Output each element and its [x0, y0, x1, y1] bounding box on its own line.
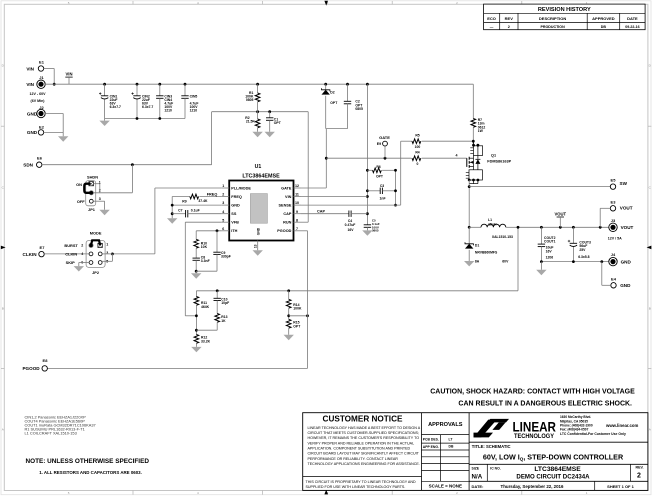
jack J3 VOUT [608, 218, 634, 240]
terminal E4 GND [611, 276, 631, 288]
wire feedback top rail [196, 227, 518, 292]
resistor R1 [245, 84, 260, 112]
svg-text:1: 1 [106, 242, 108, 246]
svg-text:6.3x5.8: 6.3x5.8 [578, 255, 589, 259]
jack J2 GND [27, 105, 45, 118]
svg-text:NOTE: UNLESS OTHERWISE SPECIFI: NOTE: UNLESS OTHERWISE SPECIFIED [26, 458, 150, 465]
wire R6/C3 to SENSE [394, 169, 397, 207]
svg-text:VOUT: VOUT [621, 225, 634, 230]
ground (C5) [362, 230, 372, 235]
svg-text:5: 5 [222, 218, 224, 222]
capacitor CIN5 [181, 84, 198, 118]
svg-text:11: 11 [295, 193, 299, 197]
svg-text:ITH: ITH [231, 229, 237, 233]
svg-text:R6: R6 [376, 165, 380, 169]
size ic rev row [469, 464, 648, 481]
svg-text:2: 2 [508, 25, 510, 29]
svg-text:L1: L1 [488, 218, 492, 222]
ground (input) [58, 136, 68, 141]
svg-text:D1: D1 [475, 243, 479, 247]
capacitor C5 [364, 219, 380, 233]
svg-text:PCB DES.: PCB DES. [423, 438, 439, 442]
wire J2/E2 to ground [44, 114, 64, 137]
svg-text:REVISION HISTORY: REVISION HISTORY [538, 7, 591, 13]
svg-text:B: B [2, 307, 4, 311]
svg-text:E3: E3 [611, 199, 617, 204]
svg-text:DATE:: DATE: [472, 484, 484, 489]
svg-text:21.5K: 21.5K [246, 120, 256, 124]
svg-text:J1: J1 [39, 75, 44, 80]
svg-text:RUN: RUN [283, 221, 291, 225]
svg-text:4: 4 [456, 153, 458, 157]
capacitor COUT2 COUT1 [538, 227, 556, 261]
svg-text:FREQ: FREQ [231, 195, 242, 199]
svg-text:CAP: CAP [283, 212, 291, 216]
svg-text:2: 2 [81, 244, 83, 248]
terminal E1 VIN [26, 60, 44, 72]
svg-text:CLKIN: CLKIN [23, 252, 38, 257]
svg-text:13: 13 [254, 244, 258, 248]
svg-text:DATE: DATE [627, 16, 638, 21]
svg-text:N/A: N/A [472, 473, 483, 480]
op-amp U1 LTC3864EMSE [222, 164, 301, 241]
svg-text:464K: 464K [201, 305, 210, 309]
wire GATE net [301, 129, 411, 188]
node CAP label [317, 209, 325, 213]
svg-text:PGOOD: PGOOD [277, 229, 291, 233]
svg-text:16V: 16V [347, 228, 354, 232]
svg-text:VIN: VIN [66, 72, 73, 77]
svg-text:LTC3864EMSE: LTC3864EMSE [242, 173, 280, 179]
svg-text:GATE: GATE [281, 186, 292, 190]
svg-text:REV: REV [505, 16, 514, 21]
ground (JP2) [74, 266, 84, 271]
svg-text:APP ENG.: APP ENG. [423, 445, 439, 449]
terminal E5 SW [610, 178, 627, 190]
svg-text:1W: 1W [478, 129, 484, 133]
title block frame [303, 413, 648, 491]
svg-text:PRODUCTION: PRODUCTION [541, 25, 566, 29]
svg-text:LTC Confidential-For Customer: LTC Confidential-For Customer Use Only [560, 432, 626, 436]
svg-text:VOUT: VOUT [620, 206, 633, 211]
capacitor CIN3 CIN4 [156, 84, 173, 118]
resistor R14 [286, 291, 302, 320]
capacitor C2 [344, 84, 363, 128]
resistor R13 [196, 314, 227, 331]
svg-text:DESCRIPTION: DESCRIPTION [539, 16, 566, 21]
svg-text:TECHNOLOGY APPLICATIONS ENGINE: TECHNOLOGY APPLICATIONS ENGINEERING FOR … [308, 462, 420, 466]
svg-text:JP1: JP1 [88, 207, 96, 212]
svg-text:REV.: REV. [635, 465, 643, 469]
svg-text:CAP: CAP [317, 209, 325, 213]
resistor R2 [245, 112, 260, 132]
wire ITH node [196, 229, 222, 232]
svg-text:DB: DB [449, 445, 454, 449]
svg-text:0: 0 [417, 162, 419, 166]
ground (C7) [167, 218, 177, 223]
svg-text:GATE: GATE [379, 135, 390, 140]
node FREQ label [207, 193, 218, 197]
svg-text:L1 COILCRAFT XAL1510-153: L1 COILCRAFT XAL1510-153 [25, 431, 77, 436]
jack J4 GND [609, 252, 632, 266]
svg-text:1: 1 [222, 184, 224, 188]
svg-text:8A: 8A [475, 260, 480, 264]
date sheet row [469, 481, 648, 490]
svg-text:CIRCUIT THAT MEETS CUSTOMER-SU: CIRCUIT THAT MEETS CUSTOMER-SUPPLIED SPE… [308, 431, 419, 435]
svg-text:SIZE: SIZE [472, 467, 480, 471]
svg-text:9: 9 [296, 210, 298, 214]
svg-text:IC NO.: IC NO. [490, 467, 500, 471]
svg-text:CIN5: CIN5 [190, 94, 198, 98]
svg-text:MODE: MODE [90, 231, 102, 236]
svg-text:TECHNOLOGY: TECHNOLOGY [514, 433, 555, 440]
svg-text:4: 4 [81, 252, 83, 256]
wire PGOOD net [47, 231, 307, 369]
revision history table [484, 4, 645, 30]
svg-text:SHDN: SHDN [87, 174, 98, 179]
svg-text:25V: 25V [579, 248, 586, 252]
capacitor CIN2 [131, 84, 153, 118]
jumper JP1 SHDN [76, 174, 101, 212]
svg-text:OPT: OPT [376, 174, 384, 178]
wire ITH gnd stem [195, 271, 197, 273]
svg-text:OPT: OPT [293, 324, 301, 328]
svg-text:CAN RESULT IN A DANGEROUS ELEC: CAN RESULT IN A DANGEROUS ELECTRIC SHOCK… [458, 400, 632, 407]
svg-text:SW: SW [620, 181, 628, 186]
svg-text:SUPPLIED FOR USE WITH LINEAR T: SUPPLIED FOR USE WITH LINEAR TECHNOLOGY … [306, 485, 406, 489]
wire input cap bottom rail [105, 117, 185, 121]
wire SDN net [42, 110, 308, 166]
diode D1 [465, 227, 509, 263]
svg-text:A: A [649, 428, 651, 432]
svg-text:R5: R5 [415, 133, 419, 137]
resistor R4 [412, 150, 467, 166]
svg-text:10K: 10K [201, 245, 208, 249]
wire RUN net [301, 112, 308, 223]
wire JP1 pin1 to pin2 [94, 184, 100, 193]
ground (C1) [265, 132, 275, 137]
svg-text:100: 100 [415, 145, 421, 149]
svg-text:J4: J4 [611, 252, 616, 257]
svg-text:3.3nF: 3.3nF [201, 259, 210, 263]
resistor R12 [194, 335, 210, 347]
svg-text:E4: E4 [611, 276, 617, 281]
svg-text:COUT1: COUT1 [544, 240, 556, 244]
svg-text:12V / 5A: 12V / 5A [608, 236, 622, 240]
jack J1 VIN [26, 75, 46, 103]
svg-text:E9: E9 [377, 142, 381, 146]
capacitor CIN1 [99, 84, 121, 118]
ground (ITH comp) [191, 273, 201, 278]
svg-text:3: 3 [99, 197, 101, 201]
capacitor C9 [196, 231, 231, 271]
svg-text:12: 12 [295, 184, 299, 188]
svg-text:4: 4 [222, 210, 224, 214]
svg-text:LINEAR TECHNOLOGY HAS MADE A B: LINEAR TECHNOLOGY HAS MADE A BEST EFFORT… [308, 426, 421, 430]
svg-text:09-22-16: 09-22-16 [625, 25, 639, 29]
wire SW net [468, 180, 610, 229]
svg-text:DEMO CIRCUIT DC2434A: DEMO CIRCUIT DC2434A [516, 474, 590, 481]
wire VOUT rail [517, 226, 609, 229]
wire E7 to JP2 pin4 [44, 253, 89, 255]
svg-text:OPT: OPT [330, 101, 338, 105]
svg-text:VIN: VIN [26, 82, 34, 87]
svg-text:6: 6 [222, 227, 224, 231]
svg-text:7: 7 [296, 227, 298, 231]
svg-text:LINEAR: LINEAR [513, 418, 557, 434]
svg-text:SS: SS [231, 212, 237, 216]
svg-text:3: 3 [222, 201, 224, 205]
svg-text:GND: GND [620, 283, 631, 288]
svg-text:GND: GND [231, 204, 240, 208]
svg-text:10pF: 10pF [221, 301, 229, 305]
svg-text:E6: E6 [37, 156, 43, 161]
ground (output caps) [536, 270, 546, 275]
svg-text:VFB: VFB [231, 221, 239, 225]
transistor Q1 FDMS86163P [466, 141, 512, 183]
svg-text:33.2K: 33.2K [201, 339, 211, 343]
svg-text:APPROVALS: APPROVALS [428, 422, 463, 428]
svg-text:1206: 1206 [546, 256, 554, 260]
wire VFB net [185, 222, 221, 316]
svg-text:E1: E1 [39, 60, 45, 65]
svg-text:SDN: SDN [23, 163, 33, 168]
svg-text:SHEET 1 OF 1: SHEET 1 OF 1 [607, 484, 634, 489]
note part numbers [25, 415, 96, 436]
wire VIN rail [45, 83, 473, 86]
caution note [430, 389, 635, 408]
svg-text:E2: E2 [39, 124, 45, 129]
ground (R12) [191, 347, 201, 352]
svg-text:VIN: VIN [285, 195, 292, 199]
capacitor COUT3 [568, 227, 591, 261]
svg-text:THIS CIRCUIT IS PROPRIETARY TO: THIS CIRCUIT IS PROPRIETARY TO LINEAR TE… [306, 480, 416, 484]
svg-text:8: 8 [296, 218, 298, 222]
svg-text:JP2: JP2 [92, 270, 100, 275]
wire E1 to VIN rail [44, 69, 56, 86]
svg-text:(6V Min): (6V Min) [31, 99, 46, 103]
svg-text:1K: 1K [221, 319, 226, 323]
svg-text:ON: ON [76, 182, 82, 187]
customer notice [306, 415, 421, 489]
svg-text:GND: GND [621, 260, 632, 265]
wire D2/C2 to GATE riser [326, 128, 348, 130]
node VOUT label [554, 211, 566, 227]
terminal E3 VOUT [610, 199, 632, 211]
wire VIN feed vertical [366, 84, 369, 225]
svg-text:CIRCUIT BOARD LAYOUT MAY SIGNI: CIRCUIT BOARD LAYOUT MAY SIGNIFICANTLY A… [308, 452, 420, 456]
resistor R6 [367, 165, 395, 178]
jumper JP2 MODE [64, 231, 108, 275]
svg-text:16V: 16V [546, 249, 553, 253]
svg-text:R9: R9 [182, 199, 186, 203]
terminal E9 GATE [377, 135, 390, 158]
svg-text:37.4K: 37.4K [198, 199, 208, 203]
svg-text:FDMS86163P: FDMS86163P [487, 160, 511, 164]
ground (JP1) [99, 210, 109, 215]
svg-text:1. ALL RESISTORS AND CAPACITO: 1. ALL RESISTORS AND CAPACITORS ARE 0603… [39, 470, 142, 475]
svg-text:LTC3864EMSE: LTC3864EMSE [534, 466, 581, 473]
svg-text:CUSTOMER NOTICE: CUSTOMER NOTICE [323, 415, 403, 424]
svg-text:OPT: OPT [274, 121, 282, 125]
svg-text:ECO: ECO [487, 16, 496, 21]
resistor R11 [194, 291, 210, 335]
wire JP1 pin3 to ground [93, 201, 104, 210]
svg-text:SKIP: SKIP [66, 260, 75, 265]
terminal E2 GND [27, 124, 45, 135]
svg-text:APPROVED: APPROVED [592, 16, 615, 21]
ground (U1 pad) [253, 250, 263, 255]
wire R14 node to PGOOD riser [289, 314, 309, 317]
svg-text:FREQ: FREQ [207, 193, 218, 197]
svg-text:E7: E7 [40, 245, 46, 250]
svg-text:2: 2 [637, 473, 641, 480]
svg-text:1210: 1210 [190, 108, 198, 112]
svg-text:—: — [490, 25, 494, 29]
svg-text:PLL/MODE: PLL/MODE [231, 186, 251, 190]
svg-text:PGOOD: PGOOD [22, 366, 40, 371]
svg-text:10: 10 [295, 201, 299, 205]
company address [560, 415, 638, 436]
svg-text:15uH: 15uH [488, 223, 497, 227]
ground (input caps) [99, 121, 109, 126]
svg-text:BURST: BURST [64, 243, 78, 248]
svg-text:12V - 60V: 12V - 60V [30, 92, 47, 96]
svg-text:330pF: 330pF [221, 254, 231, 258]
svg-text:VOUT: VOUT [554, 211, 566, 216]
terminal E7 CLKIN [23, 245, 46, 257]
wire GND/SS riser [171, 197, 222, 219]
svg-text:100K: 100K [293, 307, 302, 311]
svg-text:OFF: OFF [77, 199, 85, 204]
svg-text:Q1: Q1 [491, 153, 496, 157]
ground (R2) [252, 132, 262, 137]
resistor R15 [286, 319, 301, 335]
resistor R10 [194, 231, 208, 258]
svg-text:PERFORMANCE OR RELIABILITY. C: PERFORMANCE OR RELIABILITY. CONTACT LINE… [308, 457, 399, 461]
resistor R7 [471, 84, 485, 145]
wire JP2 pin3-pin5 link [102, 254, 112, 261]
resistor R5 [401, 133, 474, 205]
title row [469, 442, 648, 461]
wire VIN pin line [301, 196, 367, 198]
pin 13 exposed pad ground [254, 241, 258, 251]
svg-text:1nF: 1nF [379, 196, 385, 200]
wire output gnd rail [540, 260, 609, 270]
inductor L1 [469, 218, 518, 239]
capacitor C8 [193, 255, 210, 272]
wire JP2 pin6 to ground [79, 263, 89, 267]
resistor R9 [172, 194, 222, 203]
svg-text:SENSE: SENSE [279, 204, 292, 208]
capacitor C10 [214, 291, 230, 314]
svg-text:HOWEVER, IT REMAINS THE CUSTOM: HOWEVER, IT REMAINS THE CUSTOMER'S RESPO… [308, 436, 420, 440]
svg-text:TITLE: SCHEMATIC: TITLE: SCHEMATIC [472, 444, 511, 449]
svg-text:SCALE = NONE: SCALE = NONE [429, 484, 462, 489]
svg-text:E8: E8 [43, 358, 49, 363]
svg-text:CAUTION, SHOCK HAZARD: CONTACT: CAUTION, SHOCK HAZARD: CONTACT WITH HIGH… [430, 389, 635, 396]
capacitor C7 [172, 208, 222, 217]
svg-text:GND: GND [257, 227, 261, 235]
svg-text:U1: U1 [255, 164, 262, 170]
svg-text:6.3x7.7: 6.3x7.7 [110, 105, 121, 109]
svg-text:B: B [649, 307, 651, 311]
capacitor C4 [301, 211, 367, 233]
svg-text:1210: 1210 [164, 108, 172, 112]
terminal E8 PGOOD [22, 358, 48, 371]
svg-text:J3: J3 [611, 218, 616, 223]
ground (R15) [284, 335, 294, 340]
svg-text:60V: 60V [502, 260, 509, 264]
svg-text:0.47uF: 0.47uF [345, 223, 356, 227]
svg-text:60V, LOW IQ, STEP-DOWN CONTROL: 60V, LOW IQ, STEP-DOWN CONTROLLER [483, 452, 624, 461]
svg-text:XAL1510-153: XAL1510-153 [492, 235, 513, 239]
svg-text:0805: 0805 [246, 98, 254, 102]
svg-text:GND: GND [27, 111, 38, 116]
capacitor C1 [266, 112, 282, 132]
approvals box [422, 422, 470, 489]
wire PLL/MODE net [111, 188, 222, 255]
wire E4 to gnd rail [602, 262, 611, 286]
svg-text:C3: C3 [380, 184, 384, 188]
svg-text:D2: D2 [330, 90, 334, 94]
svg-text:Thursday, September 22, 2016: Thursday, September 22, 2016 [501, 484, 564, 489]
wire SENSE line [301, 204, 401, 206]
svg-text:2: 2 [222, 193, 224, 197]
svg-text:A: A [2, 428, 4, 432]
svg-text:NRVB860MFS: NRVB860MFS [475, 251, 498, 255]
svg-text:VERIFY PROPER AND RELIABLE OPE: VERIFY PROPER AND RELIABLE OPERATION IN … [308, 441, 415, 445]
wire E3 to VOUT rail [600, 208, 610, 227]
svg-text:APPLICATION. COMPONENT SUBSTI: APPLICATION. COMPONENT SUBSTITUTION AND … [308, 447, 411, 451]
wire JP1 pin2 to SDN [93, 165, 132, 193]
svg-text:0805: 0805 [372, 229, 379, 233]
ground (D1) [464, 261, 474, 266]
svg-text:VIN: VIN [26, 66, 34, 71]
svg-text:6.3x7.7: 6.3x7.7 [142, 105, 153, 109]
svg-text:C7: C7 [178, 208, 182, 212]
terminal E6 SDN [23, 156, 42, 168]
svg-text:E5: E5 [611, 178, 617, 183]
note unless otherwise specified [26, 458, 150, 475]
svg-text:DB: DB [601, 25, 607, 29]
node VIN label [65, 72, 72, 85]
svg-text:GND: GND [27, 130, 38, 135]
svg-text:www.linear.com: www.linear.com [605, 423, 638, 428]
svg-text:CLKIN: CLKIN [65, 251, 77, 256]
svg-text:R4: R4 [415, 150, 419, 154]
capacitor C3 [367, 184, 395, 200]
diode D2 [322, 84, 339, 128]
svg-text:0.1uF: 0.1uF [191, 208, 200, 212]
svg-text:0805: 0805 [355, 107, 363, 111]
svg-text:Fax: (408)434-0507: Fax: (408)434-0507 [560, 428, 589, 432]
Linear Technology logo [474, 418, 557, 440]
